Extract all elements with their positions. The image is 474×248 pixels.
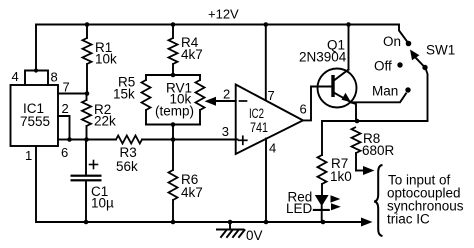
node: R4 top [171,22,176,27]
wire node to R7 corner [322,121,356,155]
0V rail [36,146,364,222]
svg-text:10µ: 10µ [91,196,114,211]
arrow from 0V rail to triac input [361,218,373,227]
svg-text:7555: 7555 [20,114,50,129]
node: collector top [346,22,351,27]
svg-text:Off: Off [374,59,392,74]
resistor R1 [83,25,118,94]
wire R3 to node [142,139,173,141]
wire y=139.5 to R3 [70,139,117,141]
switch SW1 [372,34,455,99]
svg-text:SW1: SW1 [426,43,455,58]
resistor R5 [113,75,151,125]
node: ground junction [228,220,233,225]
svg-text:4: 4 [269,141,276,156]
node: pin2/pin6 junction [67,137,72,142]
svg-text:7: 7 [63,80,70,95]
node: RV1 top junction [171,73,176,78]
resistor R2 [82,94,116,140]
node: bracket riser junction [34,68,38,72]
svg-text:56k: 56k [116,159,138,174]
svg-text:15k: 15k [113,87,135,102]
svg-text:4: 4 [12,69,19,84]
svg-text:2: 2 [62,101,69,116]
svg-text:0V: 0V [246,228,263,243]
timer IC1 7555 [11,85,59,146]
svg-text:IC2: IC2 [249,106,264,121]
node: RV1 bottom junction [171,122,176,127]
wire RV1 bottom bar [146,124,200,126]
svg-text:R3: R3 [120,145,137,160]
svg-text:8: 8 [51,70,58,85]
node: R3/R6/RV1/pin3 junction [171,137,176,142]
svg-text:LED: LED [286,201,313,216]
IC2 pin 6 output wire [300,87,332,121]
capacitor C1 [71,140,115,223]
svg-text:6: 6 [300,102,307,117]
Q1 emitter wire [352,103,357,122]
svg-text:On: On [383,34,401,49]
potentiometer RV1 [155,75,205,125]
brace to triac IC [374,165,382,236]
svg-text:7: 7 [268,88,275,103]
svg-text:10k: 10k [95,52,117,67]
node: R2 bottom / C1 top junction [84,137,89,142]
svg-text:680R: 680R [362,143,395,158]
node: LED bottom [321,220,326,225]
node: R1/R2/pin7 junction [85,91,90,96]
svg-text:22k: 22k [94,114,116,129]
svg-text:1: 1 [25,148,32,163]
SW1 pole wire [356,70,428,122]
svg-text:741: 741 [250,120,268,135]
svg-text:6: 6 [61,145,68,160]
IC1 pin 6 wire [58,140,70,161]
node: R1 top [85,22,90,27]
op-amp IC2 741 [236,85,303,155]
IC2 pin 4 wire [266,139,276,223]
resistor R7 [318,155,352,184]
svg-text:4k7: 4k7 [181,185,203,200]
node: pin7 top [264,22,269,27]
arrow from R8 to triac input [356,166,375,175]
Q1 collector wire [348,25,350,70]
resistor R3 [116,136,142,175]
resistor R4 [169,25,203,76]
LED D1 Red LED [286,184,341,222]
svg-text:2: 2 [223,87,230,102]
node: C1 bottom [84,220,89,225]
+12V rail [36,7,408,71]
svg-text:(temp): (temp) [155,104,194,119]
wire node to IC2 pin3 [173,139,238,141]
transistor Q1 2N3904 [299,38,357,108]
svg-text:3: 3 [222,124,229,139]
note text: to input of optocoupled synchronous triac IC [387,173,464,227]
ground [217,222,263,243]
IC2 pin 7 wire [266,25,275,104]
resistor R6 [169,140,203,223]
wire RV1 top bar [146,74,200,76]
svg-text:1k0: 1k0 [330,169,352,184]
svg-text:triac IC: triac IC [387,212,430,227]
SW1 Man contact wire [352,94,406,103]
IC1 pin 7 wire [58,80,87,95]
node: R6 bottom [171,220,176,225]
svg-text:Man: Man [372,84,398,99]
IC1 pin 2 wire [58,101,70,140]
svg-text:4k7: 4k7 [181,47,203,62]
node: pin4 bottom [264,220,269,225]
RV1 wiper arrow to IC2 pin2 [205,87,236,106]
wire RV1 bottom to node [172,125,174,140]
svg-text:2N3904: 2N3904 [299,50,347,65]
svg-text:+12V: +12V [208,7,239,22]
resistor R8 [352,127,395,171]
node: emitter/R8/pole junction [355,119,360,124]
IC1 pins 4,8 bracket wire [12,69,58,85]
